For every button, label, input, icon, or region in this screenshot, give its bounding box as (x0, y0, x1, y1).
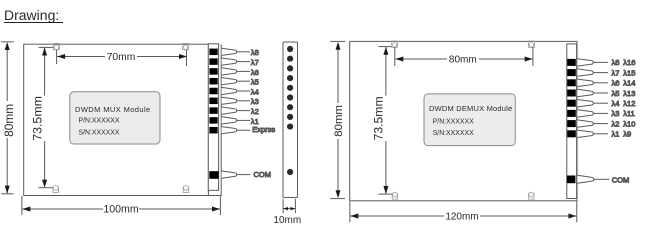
dimension 80mm left of DEMUX (330, 41, 345, 198)
connector block lambda5 (209, 78, 250, 85)
MUX right wall (220, 44, 222, 195)
svg-text:λ14: λ14 (623, 79, 635, 88)
panel port 2 (287, 56, 293, 62)
svg-text:λ4: λ4 (251, 87, 259, 96)
dimension 70mm top of MUX (57, 50, 187, 66)
MUX connector rows (209, 48, 275, 179)
svg-text:λ5: λ5 (251, 78, 259, 87)
dimension 73.5mm inside MUX (39, 47, 54, 187)
svg-text:80mm: 80mm (2, 104, 16, 137)
dimension text 73.5mm (DEMUX) (372, 96, 386, 140)
connector block lambda4/12 (567, 100, 608, 107)
svg-text:λ6: λ6 (612, 79, 620, 88)
panel port COM (287, 169, 293, 175)
connector block COM (DEMUX) (567, 175, 609, 183)
svg-text:COM: COM (254, 170, 272, 179)
connector block lambda8/16 (567, 59, 608, 66)
label lambda7 (251, 58, 259, 67)
MUX screw bottom-right (183, 186, 189, 193)
dimension text 80mm (DEMUX left) (333, 105, 345, 137)
dimension text 70mm (MUX) (107, 52, 136, 63)
panel port 8 (287, 114, 293, 120)
svg-text:P/N:XXXXXX: P/N:XXXXXX (433, 118, 474, 125)
panel port 4 (287, 75, 293, 81)
DEMUX label box (424, 94, 515, 146)
svg-text:λ13: λ13 (623, 89, 635, 98)
DEMUX screw top-left (392, 41, 398, 47)
svg-text:λ5: λ5 (612, 89, 620, 98)
label lambda8 lambda16 (612, 58, 636, 67)
MUX bottom edge extension (208, 195, 221, 197)
panel port 1 (287, 46, 293, 52)
svg-text:DWDM DEMUX Module: DWDM DEMUX Module (429, 104, 512, 113)
label lambda2 (251, 107, 259, 116)
dimension text 80mm (MUX) (2, 104, 16, 137)
svg-text:120mm: 120mm (445, 211, 478, 222)
label lambda3 lambda11 (612, 109, 635, 118)
connector block lambda7 (209, 58, 250, 65)
dimension 120mm bottom of DEMUX (350, 202, 577, 223)
svg-text:P/N:XXXXXX: P/N:XXXXXX (79, 117, 120, 124)
svg-text:80mm: 80mm (333, 105, 345, 137)
label lambda6 lambda14 (612, 79, 636, 88)
svg-text:S/N:XXXXXX: S/N:XXXXXX (433, 130, 474, 137)
connector block lambda8 (209, 48, 250, 55)
adapter side panel (273, 42, 301, 226)
dimension 80mm left of MUX (1, 42, 14, 194)
svg-text:λ8: λ8 (251, 48, 259, 57)
MUX adapter strip (208, 44, 218, 191)
label lambda4 lambda12 (612, 99, 636, 108)
panel port 9 (287, 124, 293, 130)
svg-text:Drawing:: Drawing: (4, 7, 59, 23)
svg-text:70mm: 70mm (107, 52, 136, 63)
dimension text 10mm (273, 215, 301, 226)
DEMUX module body (350, 41, 577, 200)
svg-text:λ7: λ7 (251, 58, 259, 67)
MUX screw top-left (54, 43, 60, 49)
svg-text:λ2: λ2 (251, 107, 259, 116)
label lambda1 lambda9 (612, 130, 632, 139)
DEMUX screw bottom-right (529, 192, 535, 199)
svg-text:COM: COM (612, 175, 630, 184)
connector block lambda5/13 (567, 89, 608, 96)
svg-text:λ15: λ15 (623, 68, 635, 77)
connector block lambda7/15 (567, 69, 608, 76)
DEMUX drawing (330, 41, 577, 222)
label lambda1 (251, 117, 259, 126)
svg-text:λ6: λ6 (251, 68, 259, 77)
svg-text:73.5mm: 73.5mm (372, 96, 386, 140)
MUX label box (70, 92, 160, 144)
svg-text:λ1: λ1 (612, 130, 620, 139)
DEMUX screw bottom-left (392, 192, 398, 199)
title underline (4, 22, 63, 24)
DEMUX adapter strip (567, 44, 577, 199)
connector block lambda6 (209, 68, 250, 75)
svg-text:λ16: λ16 (623, 58, 635, 67)
dimension text 120mm (DEMUX) (445, 211, 478, 222)
connector block lambda2/10 (567, 120, 608, 127)
svg-text:80mm: 80mm (449, 54, 477, 65)
panel port 6 (287, 94, 293, 100)
dimension 73.5mm inside DEMUX (378, 47, 391, 195)
dimension 10mm (283, 199, 295, 213)
svg-text:S/N:XXXXXX: S/N:XXXXXX (79, 129, 120, 136)
panel port 7 (287, 104, 293, 110)
DEMUX screw top-right (529, 41, 535, 47)
svg-text:λ11: λ11 (623, 109, 635, 118)
svg-text:λ12: λ12 (623, 99, 635, 108)
title Drawing: (4, 7, 59, 23)
dimension 100mm bottom of MUX (22, 196, 221, 215)
svg-text:λ7: λ7 (612, 68, 620, 77)
svg-text:λ10: λ10 (623, 119, 635, 128)
dimension text 100mm (MUX) (103, 204, 138, 216)
connector block lambda1 (209, 117, 250, 124)
panel port 3 (287, 65, 293, 71)
label lambda3 (251, 97, 259, 106)
label COM (DEMUX) (612, 175, 630, 184)
dimension text 80mm (DEMUX top) (449, 54, 477, 65)
svg-text:λ3: λ3 (251, 97, 259, 106)
connector block lambda1/9 (567, 130, 608, 137)
svg-text:73.5mm: 73.5mm (30, 96, 44, 141)
connector block lambda4 (209, 87, 250, 94)
svg-text:λ4: λ4 (612, 99, 620, 108)
MUX screw bottom-left (53, 186, 59, 193)
MUX screw top-right (183, 43, 189, 49)
svg-text:DWDM MUX Module: DWDM MUX Module (75, 105, 151, 114)
connector block Express (209, 127, 250, 134)
label lambda6 (251, 68, 259, 77)
svg-text:λ8: λ8 (612, 58, 620, 67)
MUX module body (24, 44, 209, 195)
DEMUX connector rows (567, 58, 635, 184)
panel port 5 (287, 85, 293, 91)
label lambda4 (251, 87, 259, 96)
svg-text:10mm: 10mm (273, 215, 301, 226)
svg-text:100mm: 100mm (103, 204, 138, 216)
svg-text:λ2: λ2 (612, 119, 620, 128)
svg-text:λ3: λ3 (612, 109, 620, 118)
svg-text:λ9: λ9 (623, 130, 631, 139)
connector block lambda2 (209, 107, 250, 114)
label lambda2 lambda10 (612, 119, 636, 128)
connector block lambda3/11 (567, 110, 608, 117)
label lambda5 (251, 78, 259, 87)
dimension text 73.5mm (MUX) (30, 96, 44, 141)
connector block lambda6/14 (567, 79, 608, 86)
label lambda5 lambda13 (612, 89, 636, 98)
svg-text:Exprss: Exprss (252, 125, 275, 134)
label lambda8 (251, 48, 259, 57)
connector block lambda3 (209, 97, 250, 104)
label Exprss (252, 125, 275, 134)
label COM (MUX) (254, 170, 272, 179)
connector block COM (MUX) (209, 171, 250, 179)
label lambda7 lambda15 (612, 68, 636, 77)
dimension 80mm top of DEMUX (395, 47, 533, 66)
